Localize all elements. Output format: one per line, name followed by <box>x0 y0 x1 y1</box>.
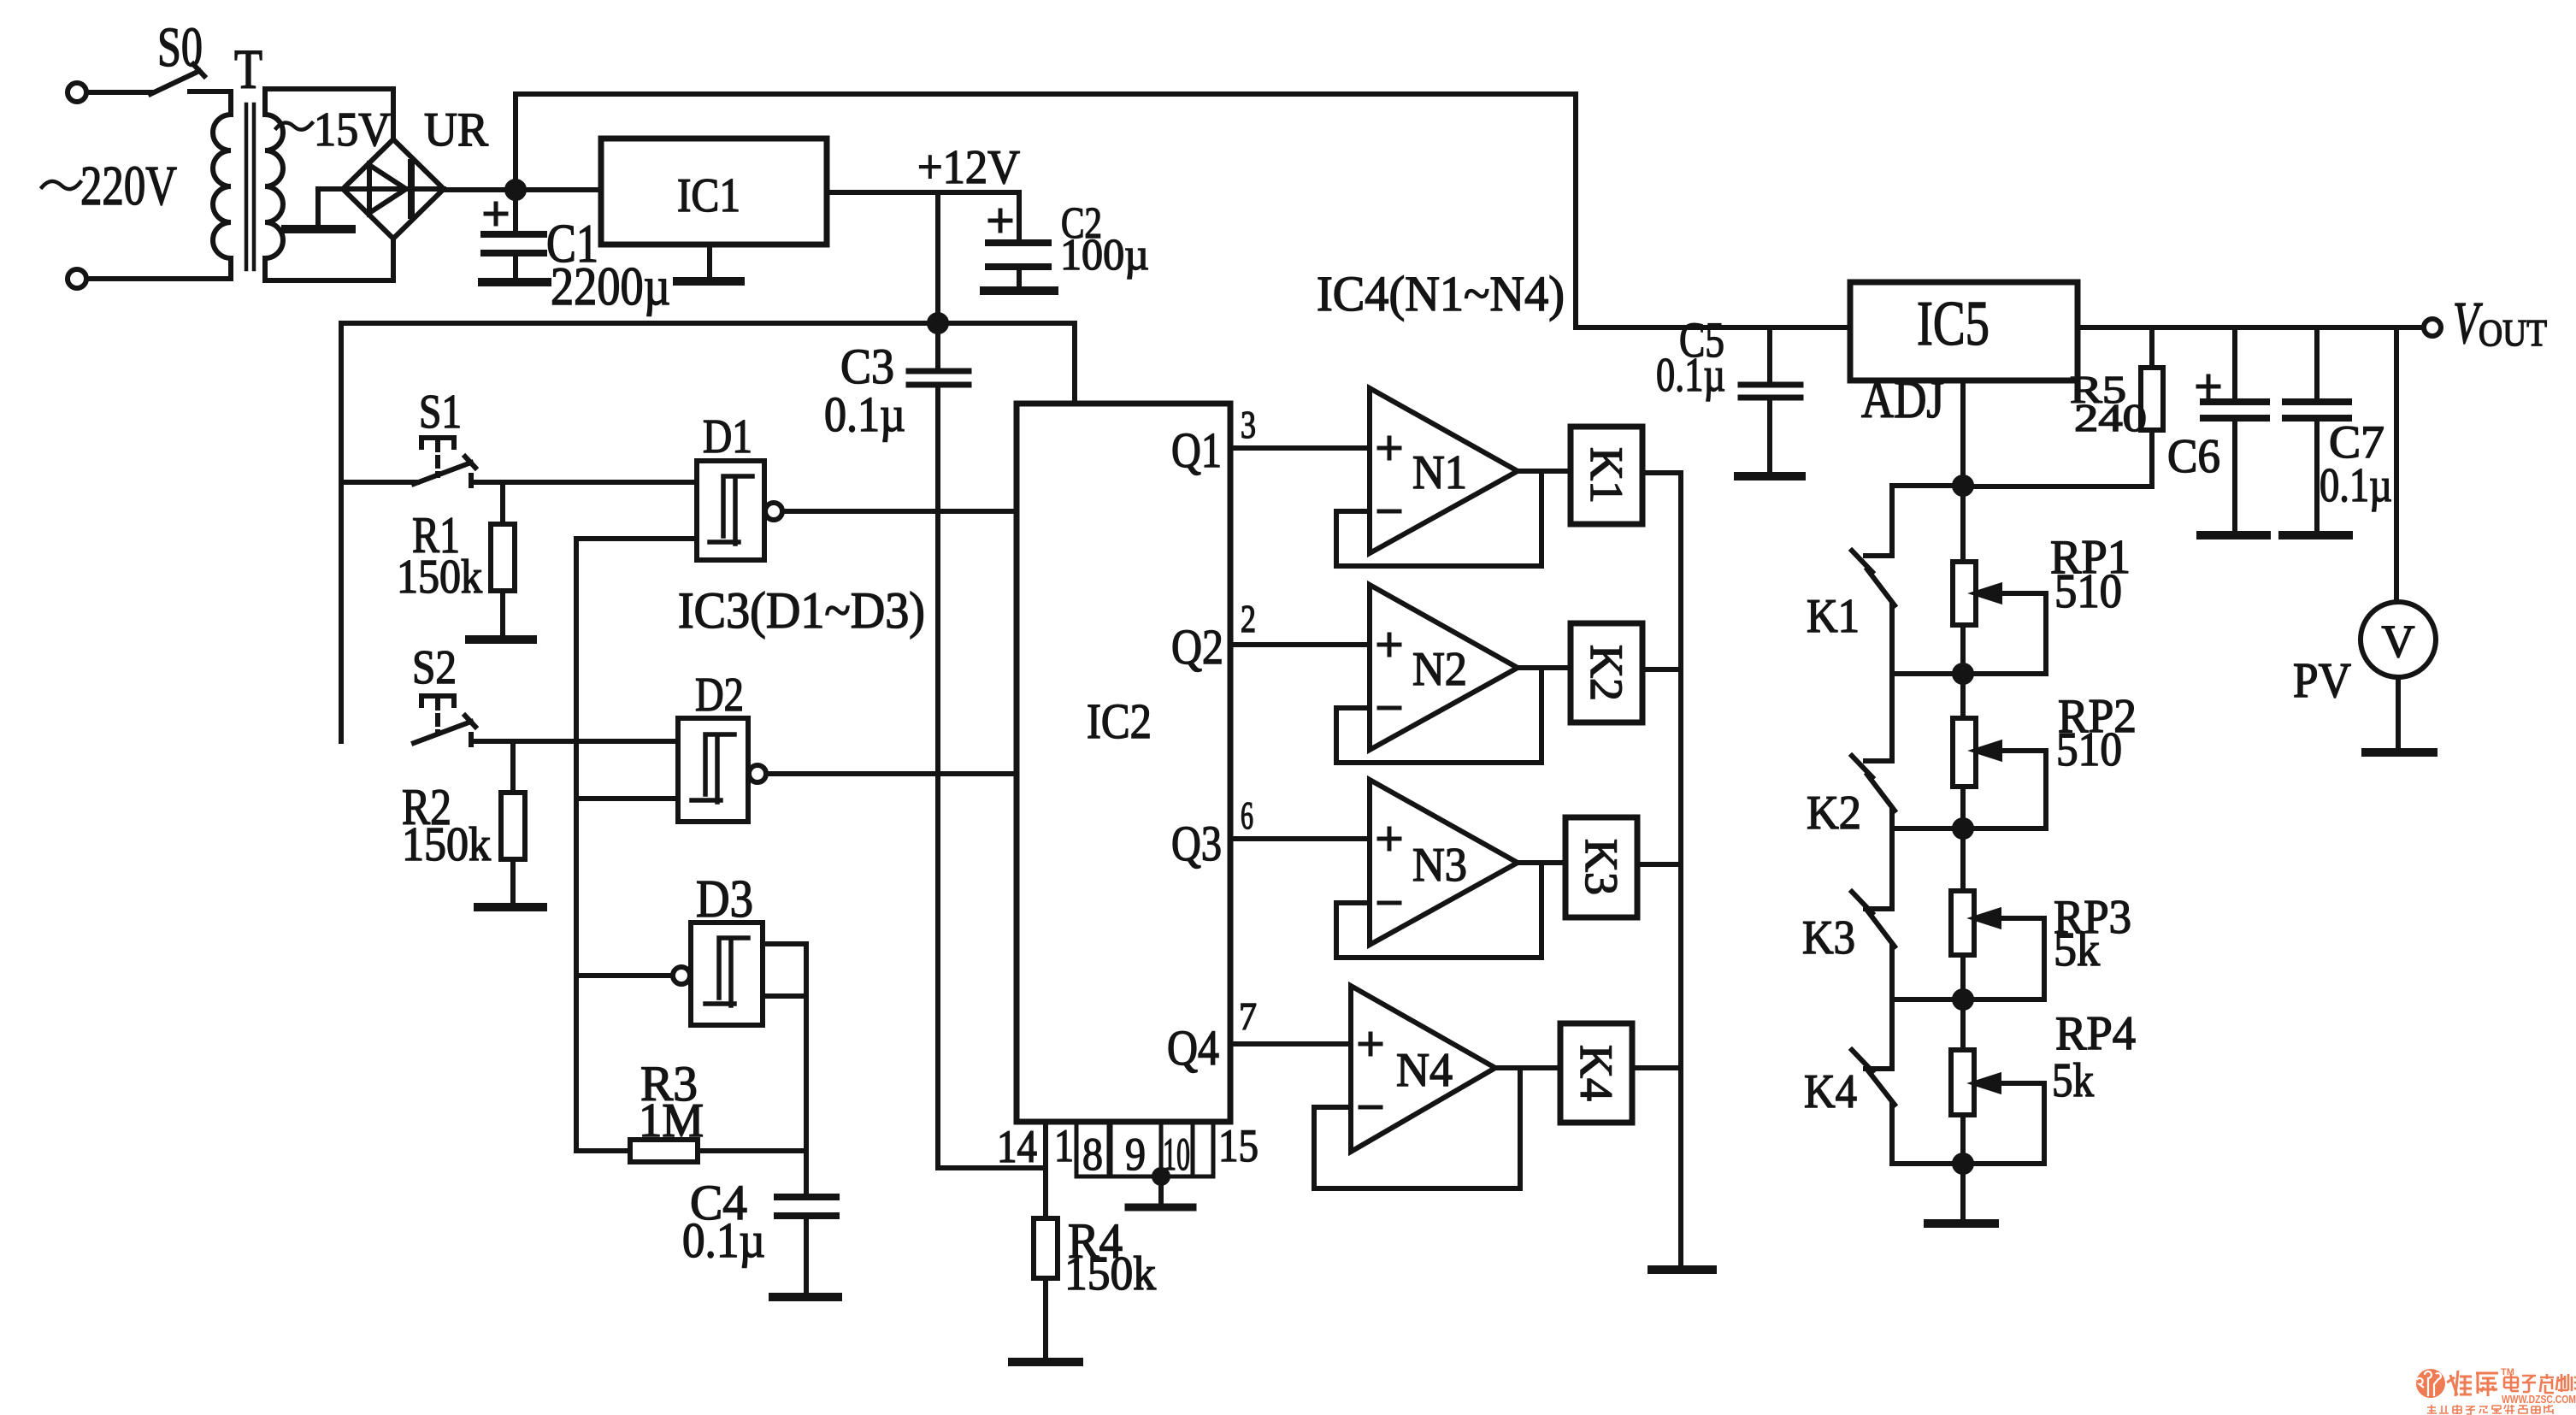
node 4 junction <box>1892 1155 2044 1172</box>
node 2 junction <box>1892 820 2046 837</box>
svg-text:OUT: OUT <box>2479 312 2547 354</box>
svg-text:100µ: 100µ <box>1060 231 1149 280</box>
resistor R3 <box>630 1140 806 1162</box>
wire node A up to top rail <box>513 94 518 190</box>
svg-text:9: 9 <box>1125 1129 1146 1180</box>
wire K3 to bus <box>1637 862 1681 867</box>
op-amp N4 <box>1351 986 1495 1152</box>
svg-text:14: 14 <box>997 1121 1037 1172</box>
ground (divider chain) <box>1928 1164 1995 1223</box>
ground (C2) <box>984 286 1054 295</box>
relay coil K1 <box>1571 427 1642 524</box>
regulator IC5 <box>1850 282 2078 380</box>
svg-text:15V: 15V <box>314 103 391 156</box>
relay contact K4 <box>1852 999 1895 1164</box>
svg-text:+12V: +12V <box>917 141 1020 194</box>
terminal VOUT <box>2424 319 2441 336</box>
svg-text:220V: 220V <box>80 155 177 217</box>
svg-text:5k: 5k <box>2052 1054 2094 1107</box>
watermark slogan (10 small chars) <box>2427 1405 2553 1414</box>
wire D3 input loop <box>763 944 806 1197</box>
ground (C7) <box>2283 531 2349 539</box>
node B (rail/C3 junction) <box>929 315 946 332</box>
bridge rectifier UR <box>343 139 444 239</box>
potentiometer RP4 <box>1951 999 2044 1164</box>
ground (R4) <box>1012 1358 1079 1366</box>
svg-text:ADJ: ADJ <box>1861 371 1944 429</box>
svg-text:7: 7 <box>1239 994 1257 1038</box>
svg-text:15: 15 <box>1218 1120 1259 1171</box>
wire N1 feedback <box>1336 471 1541 566</box>
wire D3 output bus (vertical feedback line) <box>576 539 697 1151</box>
svg-text:PV: PV <box>2293 652 2351 708</box>
svg-text:IC3(D1~D3): IC3(D1~D3) <box>678 582 925 639</box>
svg-text:2200µ: 2200µ <box>551 256 670 316</box>
ground (bridge negative) <box>286 189 351 229</box>
svg-text:Q2: Q2 <box>1171 619 1223 675</box>
svg-text:K4: K4 <box>1804 1065 1857 1118</box>
ground (IC2 pins) <box>1129 1204 1193 1212</box>
wire Q4 to N4 <box>1230 1041 1351 1047</box>
svg-text:1: 1 <box>1054 1120 1074 1171</box>
svg-text:Q1: Q1 <box>1171 422 1222 478</box>
wire K1 to bus <box>1642 470 1681 475</box>
svg-text:N3: N3 <box>1412 839 1467 892</box>
ground (PV) <box>2366 748 2433 757</box>
wire IC5 output rail <box>2078 325 2423 330</box>
pin 10 box <box>1161 1122 1193 1176</box>
svg-text:D3: D3 <box>696 870 753 929</box>
wire D2 output to IC2 <box>766 771 1017 776</box>
resistor R5 <box>1963 327 2163 486</box>
label ~15V <box>276 122 312 129</box>
svg-text:240: 240 <box>2074 396 2147 439</box>
svg-text:K3: K3 <box>1802 911 1855 964</box>
svg-text:510: 510 <box>2054 565 2122 618</box>
wire bridge output to IC1 <box>444 187 601 192</box>
resistor R2 <box>501 741 525 904</box>
potentiometer RP3 <box>1951 828 2044 999</box>
watermark chars (dian zi shi chang wang) <box>2504 1374 2576 1393</box>
relay coil K2 <box>1571 623 1642 722</box>
svg-text:1M: 1M <box>639 1094 704 1147</box>
wire relay common bus <box>1678 473 1683 1266</box>
watermark big char 1 (wei) <box>2447 1371 2472 1396</box>
svg-text:K2: K2 <box>1807 787 1861 840</box>
node A (rectifier output junction) <box>507 181 524 198</box>
svg-text:K2: K2 <box>1581 645 1632 701</box>
potentiometer RP2 <box>1953 674 2046 828</box>
svg-text:UR: UR <box>424 103 489 156</box>
wire +12V rail <box>341 323 1075 404</box>
op-amp N2 <box>1370 585 1518 750</box>
ground (C6) <box>2201 531 2267 539</box>
svg-text:0.1µ: 0.1µ <box>824 386 905 442</box>
wire K4 to bus <box>1632 1065 1681 1070</box>
op-amp N1 <box>1370 388 1518 553</box>
relay contact K2 <box>1852 674 1895 828</box>
svg-text:Q3: Q3 <box>1171 816 1222 871</box>
wire Q2 to N2 <box>1230 642 1370 647</box>
svg-text:WWW.DZSC.COM: WWW.DZSC.COM <box>2502 1393 2576 1406</box>
svg-text:C6: C6 <box>2167 430 2220 483</box>
svg-text:3: 3 <box>1241 403 1256 446</box>
transformer T secondary winding <box>265 89 393 280</box>
terminal J2 (AC input bottom) <box>68 269 86 288</box>
pin 15 box <box>1193 1122 1213 1176</box>
potentiometer RP1 <box>1953 486 2046 674</box>
svg-text:K1: K1 <box>1807 590 1860 643</box>
capacitor C3 <box>909 323 1046 1168</box>
svg-text:510: 510 <box>2056 723 2122 776</box>
transformer T core <box>246 104 254 269</box>
svg-text:IC5: IC5 <box>1917 289 1989 359</box>
wire Q3 to N3 <box>1230 836 1370 841</box>
node 1 junction <box>1892 665 2046 682</box>
svg-text:T: T <box>234 38 262 101</box>
wire N3 feedback <box>1336 863 1541 958</box>
svg-text:IC2: IC2 <box>1087 693 1152 749</box>
svg-text:K1: K1 <box>1581 447 1632 504</box>
svg-text:150k: 150k <box>1064 1247 1156 1300</box>
ground (C4) <box>773 1293 838 1301</box>
relay contact K1 <box>1852 486 1963 674</box>
wire J1 to S0 <box>86 90 150 95</box>
wire N1 output <box>1518 469 1571 474</box>
svg-text:0.1µ: 0.1µ <box>1656 349 1725 402</box>
wire N2 feedback <box>1336 668 1541 763</box>
ground (relay bus) <box>1652 1265 1712 1274</box>
ground (C5) <box>1738 472 1801 481</box>
svg-text:N4: N4 <box>1396 1044 1453 1097</box>
svg-text:D2: D2 <box>695 669 744 722</box>
capacitor C7 <box>2285 327 2349 532</box>
relay coil K3 <box>1565 817 1637 917</box>
svg-text:TM: TM <box>2501 1367 2514 1377</box>
node 3 junction <box>1892 991 2044 1008</box>
resistor R4 <box>1034 1122 1058 1359</box>
terminal J1 (AC input top) <box>68 83 86 102</box>
wire IC1 output <box>827 190 1019 195</box>
wire D1 output to IC2 <box>782 509 1017 514</box>
wire Q1 to N1 <box>1230 445 1370 451</box>
svg-text:S1: S1 <box>419 386 462 439</box>
switch S2 <box>414 696 678 745</box>
pin 9 box <box>1111 1122 1161 1176</box>
IC2 main box <box>1017 404 1230 1122</box>
svg-text:N2: N2 <box>1412 643 1467 696</box>
svg-text:S0: S0 <box>157 16 203 79</box>
capacitor C5 <box>1741 327 1801 473</box>
wire +12V down to rail <box>935 192 940 323</box>
regulator IC1 <box>601 139 827 245</box>
wire N4 output <box>1495 1065 1560 1070</box>
svg-text:150k: 150k <box>402 818 491 871</box>
inverter D1 <box>697 461 782 560</box>
svg-text:150k: 150k <box>397 551 482 604</box>
capacitor C6 <box>2198 327 2267 532</box>
relay coil K4 <box>1560 1023 1632 1123</box>
svg-text:K4: K4 <box>1571 1045 1622 1101</box>
capacitor C1 <box>484 190 544 279</box>
pin 8 box <box>1076 1122 1109 1176</box>
svg-text:2: 2 <box>1241 597 1256 640</box>
node ADJ junction <box>1954 477 1972 494</box>
wire N4 feedback <box>1314 1068 1520 1188</box>
ground (R2) <box>478 903 543 911</box>
node C (pin ground junction) <box>1154 1170 1168 1204</box>
svg-text:5k: 5k <box>2054 923 2100 976</box>
transformer T primary winding <box>86 91 231 279</box>
label ~220V <box>42 181 80 189</box>
relay contact K3 <box>1852 828 1895 999</box>
wire N3 output <box>1518 860 1565 865</box>
wire top rail <box>516 94 1850 327</box>
svg-text:D1: D1 <box>703 410 752 463</box>
wire rail left drop to S1/S2 <box>339 323 344 741</box>
resistor R1 <box>491 482 515 636</box>
svg-text:0.1µ: 0.1µ <box>2320 459 2392 512</box>
svg-text:8: 8 <box>1082 1129 1103 1180</box>
capacitor C4 <box>777 1197 836 1294</box>
op-amp N3 <box>1370 780 1518 945</box>
ground (C1) <box>482 278 547 286</box>
ground (R1) <box>469 635 533 644</box>
wire K2 to bus <box>1642 667 1681 672</box>
svg-text:Q4: Q4 <box>1167 1020 1219 1076</box>
capacitor C2 <box>988 192 1048 287</box>
svg-text:0.1µ: 0.1µ <box>682 1212 765 1268</box>
inverter D2 <box>678 718 766 822</box>
ground (IC1) <box>677 245 740 281</box>
watermark big char 2 (ku) <box>2476 1373 2498 1396</box>
switch S0 <box>150 64 231 94</box>
svg-text:IC4(N1~N4): IC4(N1~N4) <box>1317 266 1565 321</box>
switch S1 <box>341 438 697 486</box>
svg-text:S2: S2 <box>412 641 457 694</box>
inverter D3 <box>673 923 763 1025</box>
svg-text:6: 6 <box>1241 793 1253 837</box>
svg-text:RP4: RP4 <box>2055 1007 2136 1060</box>
svg-text:V: V <box>2382 616 2415 667</box>
wire N2 output <box>1518 665 1571 670</box>
svg-text:IC1: IC1 <box>677 169 740 222</box>
svg-text:K3: K3 <box>1576 839 1627 895</box>
watermark logo (dzsc.com) <box>2416 1367 2576 1414</box>
wire IC5 ADJ pin <box>1960 380 1966 486</box>
svg-text:N1: N1 <box>1412 446 1467 499</box>
voltmeter PV <box>2361 327 2436 749</box>
